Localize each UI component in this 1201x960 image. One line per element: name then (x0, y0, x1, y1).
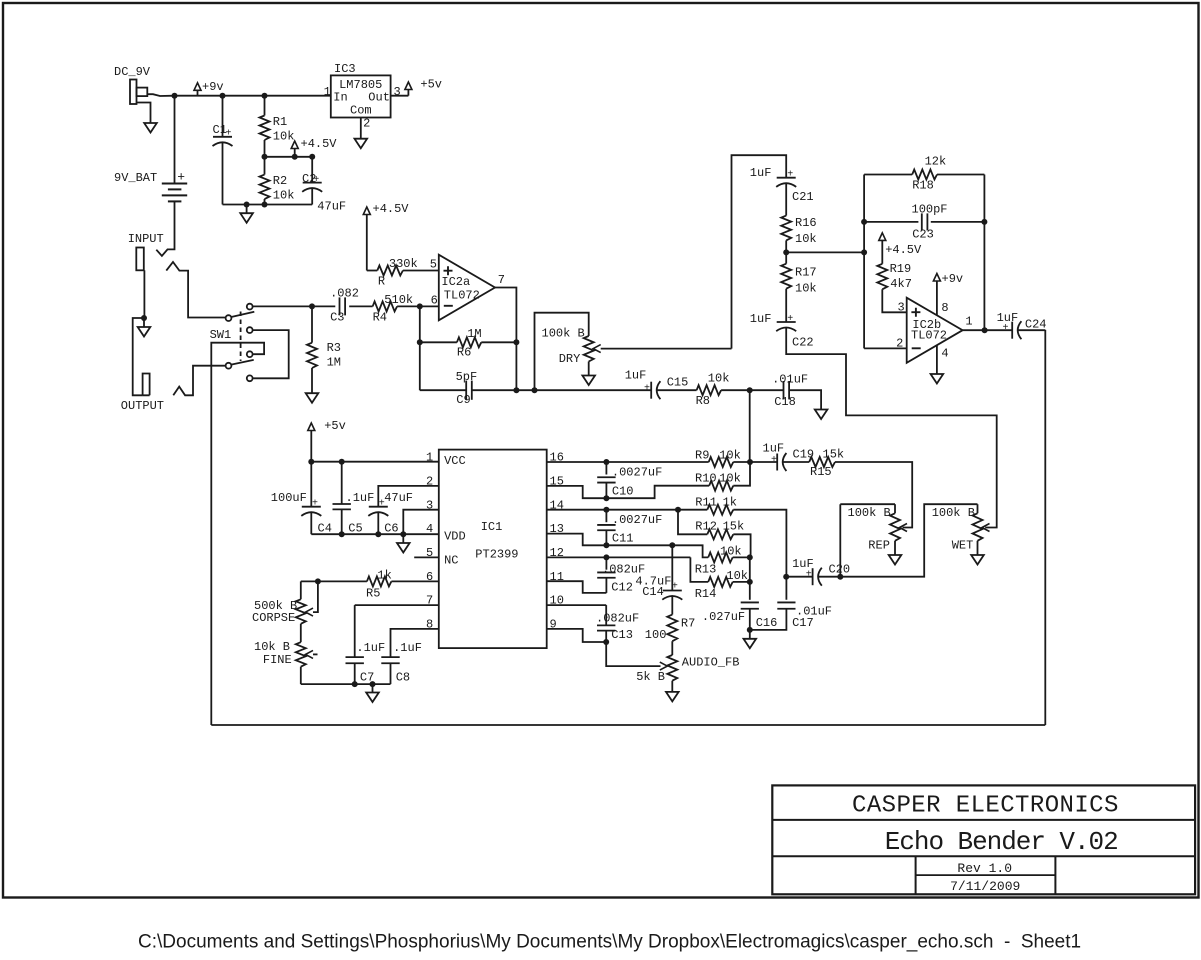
wire C20 to REP loop (818, 576, 840, 578)
wire to R6 (420, 341, 457, 343)
wire feedback right riser (1044, 330, 1046, 725)
svg-text:10k: 10k (719, 448, 741, 462)
wire node to R2 (264, 157, 266, 175)
svg-text:.0027uF: .0027uF (612, 513, 662, 527)
resistor R8 (697, 385, 722, 395)
junction (747, 387, 753, 393)
power +5v arrow IC1 (308, 423, 315, 431)
wire C23 left (864, 221, 918, 223)
SW1 link dashed (240, 312, 242, 362)
wire C3 to R4 (349, 305, 372, 307)
potentiometer FINE 10k (296, 642, 306, 667)
connector DC_9V jack (130, 80, 147, 105)
capacitor C23 (922, 213, 928, 230)
wire R15 to REP wiper (835, 462, 912, 528)
SW1 throw B2 (247, 375, 253, 381)
junction (747, 459, 753, 465)
junction (309, 303, 315, 309)
svg-text:.1uF: .1uF (356, 641, 385, 655)
wire to R3 (311, 306, 313, 342)
resistor R11 (707, 505, 733, 515)
svg-text:100pF: 100pF (912, 203, 948, 217)
wire IC2b loop right (983, 175, 985, 331)
junction (370, 681, 376, 687)
wire pin10 row (547, 604, 607, 606)
power +4.5V arrow IC2a (363, 207, 370, 215)
wire REP to gnd (894, 541, 896, 555)
svg-text:R16: R16 (795, 216, 817, 230)
battery 9V_BAT (162, 184, 187, 202)
junction (262, 154, 268, 160)
capacitor C13 (597, 625, 615, 630)
wire jack sleeve (137, 103, 151, 124)
junction (982, 327, 988, 333)
junction (747, 627, 753, 633)
wire WET to gnd (977, 541, 979, 555)
svg-text:C14: C14 (642, 585, 664, 599)
wire C6 down (377, 512, 379, 535)
svg-text:IC3: IC3 (334, 62, 356, 76)
svg-text:INPUT: INPUT (128, 232, 164, 246)
ground C16 (744, 639, 757, 649)
wire CORPSE to FINE (300, 624, 302, 642)
wire R6 to output (481, 341, 516, 343)
wire R18 loop top right (937, 174, 984, 176)
wire R3 to gnd (311, 368, 313, 393)
ground AUDIO_FB (666, 692, 679, 702)
svg-text:15k: 15k (723, 520, 745, 534)
junction (308, 459, 314, 465)
svg-text:1M: 1M (467, 327, 481, 341)
svg-text:C8: C8 (396, 671, 410, 685)
wire C10 down (605, 483, 607, 499)
svg-text:IC1: IC1 (481, 520, 503, 534)
svg-text:7: 7 (498, 273, 505, 287)
resistor R19 (877, 264, 887, 290)
wire pin2 to C6 (378, 486, 439, 507)
wire R8 to C18 (721, 389, 783, 391)
resistor R14 (708, 577, 733, 587)
svg-text:R9: R9 (695, 448, 709, 462)
svg-text:.1uF: .1uF (393, 641, 422, 655)
wire output signal to SW1 (173, 366, 225, 396)
wire REP loop top (840, 503, 895, 505)
svg-text:CORPSE: CORPSE (252, 611, 295, 625)
connector OUTPUT jack (143, 374, 150, 396)
junction (837, 574, 843, 580)
potentiometer DRY 100k (584, 336, 594, 362)
svg-text:R2: R2 (273, 174, 287, 188)
svg-text:.01uF: .01uF (772, 372, 808, 386)
wire C17 to gnd node (750, 609, 787, 630)
wire C18 to gnd (789, 390, 821, 409)
ground C18 (815, 410, 828, 420)
wire pin6 row left (301, 580, 367, 582)
wire C14 to R7 (671, 595, 673, 614)
capacitor C17 (777, 602, 795, 608)
wire R18 loop top left (864, 174, 912, 176)
svg-text:PT2399: PT2399 (475, 548, 518, 562)
wire R19 to pin3 (882, 289, 906, 312)
svg-text:+4.5V: +4.5V (885, 243, 922, 257)
svg-text:.1uF: .1uF (346, 491, 375, 505)
ground IC2b (931, 374, 944, 384)
resistor R1 (260, 116, 270, 141)
svg-text:FINE: FINE (263, 653, 292, 667)
capacitor C21 (776, 178, 796, 187)
wire +4.5V stub (294, 149, 296, 157)
svg-text:C24: C24 (1025, 317, 1047, 331)
label IC2a plus (444, 266, 453, 275)
junction (603, 542, 609, 548)
wire DRY wiper (601, 348, 732, 350)
wire pin3 down (403, 510, 439, 535)
wire C15 to R8 (658, 389, 697, 391)
wire +4.5V to 330k (366, 215, 368, 271)
wire pin16 row (547, 461, 709, 463)
resistor R7 (667, 615, 677, 642)
resistor R3 (307, 343, 317, 368)
wire pin12 to R14 (690, 557, 708, 582)
ground divider (240, 213, 253, 223)
resistor R12 (707, 529, 733, 539)
junction (861, 219, 867, 225)
svg-text:1k: 1k (377, 568, 391, 582)
capacitor C2 (302, 183, 322, 192)
title block outer (772, 785, 1195, 894)
svg-text:R11: R11 (695, 496, 717, 510)
svg-text:+5v: +5v (324, 419, 346, 433)
wire feedback bottom rail (211, 724, 1045, 726)
wire CORPSE wiper (313, 581, 318, 612)
wire bottom to WET top (840, 504, 977, 577)
wire gnd stub (749, 630, 751, 639)
svg-text:+: + (771, 455, 777, 466)
svg-text:3: 3 (394, 85, 401, 99)
connector INPUT jack (136, 248, 144, 271)
wire pin14 to R12 (678, 510, 707, 535)
svg-text:C15: C15 (667, 376, 689, 390)
wire jack tip to +9v rail (147, 94, 174, 96)
junction (417, 303, 423, 309)
wire R1 to node (264, 140, 266, 157)
svg-text:IC2a: IC2a (441, 275, 470, 289)
wire R13 to node (733, 556, 750, 558)
svg-text:WET: WET (952, 538, 974, 552)
junction (262, 93, 268, 99)
wire ground rail (223, 204, 313, 206)
wire pin4 to gnd (936, 345, 938, 374)
wire battery top (174, 96, 176, 184)
op-amp IC2b (907, 298, 963, 363)
capacitor C18 (784, 381, 790, 399)
wire pin7 to C7 (354, 605, 356, 657)
title block inner right (1054, 856, 1056, 894)
wire inverting node down (419, 306, 421, 390)
wire gnd stub (402, 534, 404, 543)
wire bias node to IC2b loop (786, 251, 864, 253)
capacitor C7 (346, 657, 364, 663)
svg-text:330k: 330k (389, 257, 418, 271)
svg-text:AUDIO_FB: AUDIO_FB (682, 655, 740, 669)
svg-text:100k B: 100k B (932, 506, 975, 520)
svg-text:+: + (177, 170, 185, 185)
resistor R 330k (377, 266, 403, 276)
svg-text:4k7: 4k7 (890, 277, 912, 291)
svg-text:12k: 12k (925, 155, 947, 169)
svg-text:R: R (378, 275, 385, 289)
svg-text:4: 4 (941, 346, 948, 360)
wire WET top stub (977, 504, 979, 513)
title block inner divider (916, 874, 1056, 876)
junction (262, 202, 268, 208)
wire gnd stub (372, 684, 374, 692)
svg-text:C16: C16 (756, 616, 778, 630)
wire to C10 (605, 462, 607, 475)
svg-text:3: 3 (898, 300, 905, 314)
svg-text:C12: C12 (611, 581, 633, 595)
wire DRY pot top loop (535, 313, 589, 391)
wire +9v to pin8 (936, 281, 938, 315)
wire IC2b output to C24 (963, 329, 1013, 331)
junction (783, 249, 789, 255)
wire C4 to VDD rail (310, 512, 312, 535)
label IC2b minus (912, 347, 921, 349)
wire C23 right (931, 221, 985, 223)
capacitor C20 (813, 568, 822, 586)
ground DRY (582, 376, 595, 386)
wire IC2a output (495, 288, 516, 391)
svg-text:47uF: 47uF (317, 200, 346, 214)
wire IC3 out (391, 95, 409, 97)
svg-text:+: + (787, 169, 793, 180)
svg-text:C21: C21 (792, 190, 814, 204)
svg-text:+9v: +9v (202, 80, 224, 94)
resistor R9 (709, 457, 734, 467)
wire C7 down (354, 663, 356, 684)
junction (315, 578, 321, 584)
power +9v arrow IC2b (933, 274, 940, 282)
svg-text:10k B: 10k B (254, 640, 290, 654)
svg-text:+: + (787, 314, 793, 325)
wire R17 to C22 (785, 289, 787, 322)
wire SW1 to C3 (253, 305, 336, 307)
wire divider node (265, 156, 313, 158)
svg-text:+: + (806, 570, 812, 581)
junction (981, 219, 987, 225)
junction (352, 681, 358, 687)
svg-text:R8: R8 (696, 394, 710, 408)
junction (603, 639, 609, 645)
wire pin15 step (547, 486, 607, 498)
wire 330k to pin5 (403, 270, 439, 272)
svg-text:Echo Bender V.02: Echo Bender V.02 (885, 827, 1118, 857)
svg-text:R4: R4 (373, 310, 387, 324)
capacitor C10 (597, 477, 615, 482)
wire R9 to C19 (733, 461, 777, 463)
svg-text:R5: R5 (366, 587, 380, 601)
svg-text:TL072: TL072 (444, 288, 480, 302)
junction (603, 554, 609, 560)
potentiometer CORPSE 500k (296, 599, 306, 624)
svg-text:DRY: DRY (559, 352, 581, 366)
svg-text:VDD: VDD (444, 530, 466, 544)
svg-text:7/11/2009: 7/11/2009 (950, 879, 1020, 894)
wire DRY wiper to C21 (732, 155, 787, 348)
SW1 pole A (226, 315, 232, 321)
wire +5v stub (407, 90, 409, 96)
SW1 pole B (226, 363, 232, 369)
ground DC jack (144, 123, 157, 133)
potentiometer WET 100k (973, 513, 983, 541)
power +4.5V arrow R19 (879, 233, 886, 241)
wire to C9 (420, 389, 466, 391)
wire C14 top (671, 545, 673, 590)
wire R5 to pin6 (391, 580, 438, 582)
junction (513, 387, 519, 393)
title block divider 1 (772, 819, 1195, 821)
wire node down to C19 row (749, 390, 751, 462)
resistor R10 (709, 481, 733, 491)
svg-text:10k: 10k (726, 569, 748, 583)
svg-text:510k: 510k (384, 293, 413, 307)
wire pin9 step (547, 629, 607, 642)
junction (309, 154, 315, 160)
wire to R1 (264, 96, 266, 116)
svg-text:R18: R18 (912, 179, 934, 193)
ground IC3 (355, 139, 368, 149)
potentiometer AUDIO_FB 5k (667, 655, 677, 681)
svg-text:C:\Documents and Settings\Phos: C:\Documents and Settings\Phosphorius\My… (138, 932, 1081, 953)
wire +5v stub IC1 (310, 431, 312, 462)
wire +9v stub (197, 90, 199, 96)
wire R10 to node (733, 462, 750, 486)
svg-text:R17: R17 (795, 265, 817, 279)
capacitor C1 (213, 137, 233, 146)
capacitor C15 (651, 381, 660, 399)
wire VDD rail (311, 533, 439, 535)
wire R2 to rail (264, 199, 266, 205)
wire to CORPSE (300, 581, 302, 599)
title block divider 2 (772, 855, 1195, 857)
svg-text:R19: R19 (890, 262, 912, 276)
resistor R4 (373, 301, 398, 311)
junction (675, 507, 681, 513)
IC IC1 PT2399 box (439, 450, 547, 648)
resistor R2 (260, 175, 270, 200)
svg-text:NC: NC (444, 554, 458, 568)
svg-text:100k B: 100k B (848, 506, 891, 520)
svg-text:2: 2 (896, 337, 903, 351)
svg-text:5: 5 (430, 258, 437, 272)
svg-text:+: + (644, 384, 650, 395)
svg-text:15k: 15k (823, 448, 845, 462)
resistor R18 (912, 170, 937, 180)
wire R14 to node (733, 581, 750, 583)
svg-text:1uF: 1uF (750, 166, 772, 180)
wire to IC2b pin2 (864, 347, 907, 349)
svg-text:C3: C3 (330, 310, 344, 324)
svg-text:C9: C9 (456, 393, 470, 407)
ground VDD rail (397, 543, 410, 553)
junction (747, 554, 753, 560)
wire pin13 step (547, 534, 607, 546)
wire +9v rail (175, 95, 331, 97)
SW1 lever B (231, 360, 254, 365)
wire C21 to R16 (785, 183, 787, 216)
wire to C11 (605, 510, 607, 523)
wire R4 to pin6 (397, 305, 439, 307)
capacitor C3 (340, 297, 346, 315)
wire IC3 com (360, 118, 362, 139)
svg-text:C10: C10 (612, 485, 634, 499)
wire +4.5V to R19 (881, 240, 883, 263)
wire R16 to R17 (785, 240, 787, 263)
svg-text:.0027uF: .0027uF (612, 466, 662, 480)
junction (292, 154, 298, 160)
wire pin11 step (547, 581, 607, 593)
svg-text:CASPER ELECTRONICS: CASPER ELECTRONICS (852, 793, 1119, 820)
wire gnd stub (143, 318, 145, 327)
wire C24 to feedback riser (1018, 329, 1046, 331)
svg-text:10k: 10k (719, 472, 741, 486)
wire C1 to gnd rail (222, 142, 224, 205)
wire to C1 (222, 96, 224, 136)
wire pin14 row (547, 509, 708, 511)
svg-text:Rev 1.0: Rev 1.0 (957, 861, 1012, 876)
svg-text:C13: C13 (611, 628, 633, 642)
capacitor C22 (776, 322, 796, 331)
label IC2a minus (444, 305, 453, 307)
svg-text:R15: R15 (810, 465, 832, 479)
wire R12 to node (733, 534, 750, 557)
svg-text:In: In (333, 90, 347, 104)
svg-text:R14: R14 (695, 587, 717, 601)
wire node to C2 (311, 157, 313, 183)
wire gnd stub (246, 205, 248, 214)
svg-text:C23: C23 (912, 228, 934, 242)
svg-text:C7: C7 (360, 671, 374, 685)
junction (339, 459, 345, 465)
svg-text:10k: 10k (273, 189, 295, 203)
wire AUDIO_FB wiper (606, 642, 660, 666)
wire C22 to WET wiper (786, 327, 997, 527)
svg-text:1: 1 (324, 85, 331, 99)
svg-text:+9v: +9v (942, 272, 964, 286)
wire VCC row (311, 461, 439, 463)
resistor R13 (708, 552, 733, 562)
svg-text:+: + (225, 129, 231, 140)
junction (339, 531, 345, 537)
svg-text:1uF: 1uF (625, 369, 647, 383)
svg-text:.027uF: .027uF (702, 610, 745, 624)
svg-text:9V_BAT: 9V_BAT (114, 171, 157, 185)
svg-text:+4.5V: +4.5V (301, 137, 338, 151)
resistor R17 (781, 264, 791, 289)
capacitor C6 (368, 507, 388, 516)
wire pin12 row (547, 556, 691, 558)
wire C19 to R15 (783, 461, 810, 463)
svg-text:C22: C22 (792, 335, 814, 349)
label IC2b plus (911, 308, 920, 317)
svg-text:5k B: 5k B (636, 670, 665, 684)
svg-text:R6: R6 (457, 346, 471, 360)
wire R7 to pot (671, 641, 673, 655)
wire pin5 NC stub (414, 556, 439, 558)
wire to C12 (605, 557, 607, 569)
svg-text:10k: 10k (708, 371, 730, 385)
wire input jack to node (143, 270, 145, 318)
